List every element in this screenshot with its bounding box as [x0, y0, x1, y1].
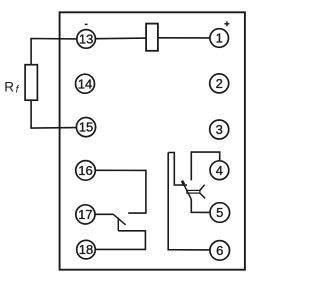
switch armature (movable contact from pin 17)	[113, 214, 126, 225]
transistor Q1 base diagonal	[182, 181, 191, 198]
transistor Q1 body bar	[187, 190, 200, 193]
pin 13	[77, 30, 96, 49]
wire pin16 to upper switch contact	[95, 170, 146, 213]
pin 15	[76, 118, 95, 137]
wire transistor collector to pin 4	[191, 152, 219, 180]
svg-text:14: 14	[78, 76, 92, 91]
pin 1	[210, 29, 229, 48]
pin 3	[210, 120, 229, 139]
svg-text:18: 18	[79, 242, 93, 257]
switch contact riser to pin 18 stub	[117, 218, 119, 231]
pin 5	[210, 203, 230, 223]
wire internal resistor to pin 1	[158, 37, 210, 39]
pin 4	[210, 161, 229, 180]
wire transistor emitter to pin 5	[191, 198, 210, 212]
resistor Rf	[25, 65, 37, 101]
svg-text:15: 15	[79, 120, 93, 135]
transistor Q1 upper arm	[200, 185, 205, 191]
pin 2	[210, 74, 229, 93]
svg-text:3: 3	[216, 122, 223, 137]
svg-text:6: 6	[216, 243, 223, 258]
pin 14	[76, 74, 95, 93]
internal resistor body (between pin 13 and pin 1)	[146, 24, 158, 51]
wire pin13 left to Rf top	[31, 39, 77, 65]
svg-text:4: 4	[216, 163, 223, 178]
pin 6	[210, 241, 230, 261]
label plus (pin 1 polarity)	[224, 21, 229, 26]
IC package outline	[60, 12, 245, 269]
svg-text:Rf: Rf	[4, 80, 19, 96]
svg-text:1: 1	[216, 31, 223, 46]
wire pin18 to lower switch contact	[95, 231, 145, 250]
transistor Q1 lower arm	[200, 193, 205, 198]
label Rf	[4, 80, 19, 96]
svg-text:2: 2	[216, 76, 223, 91]
label minus (pin 13 polarity)	[85, 23, 88, 25]
svg-text:16: 16	[78, 163, 92, 178]
svg-text:13: 13	[79, 32, 93, 47]
pin 16	[76, 161, 96, 181]
wire pin17 to switch armature	[95, 213, 113, 215]
svg-text:17: 17	[78, 207, 92, 222]
svg-text:5: 5	[216, 205, 223, 220]
pin 18	[77, 240, 96, 259]
wire pin13 to internal resistor	[96, 37, 147, 40]
wire Rf bottom to pin 15	[31, 100, 76, 128]
wire rail top bracket to transistor base lead	[168, 153, 187, 186]
pin 17	[76, 205, 95, 224]
wire common rail to pin 6	[168, 153, 210, 250]
